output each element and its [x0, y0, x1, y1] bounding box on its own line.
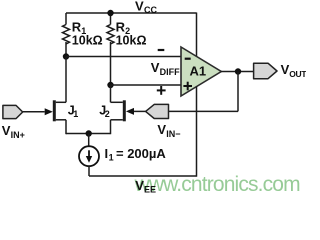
svg-text:IN−: IN−: [166, 129, 180, 139]
svg-text:IN+: IN+: [11, 130, 25, 140]
value label R1 10kΩ: [72, 20, 103, 48]
svg-text:10kΩ: 10kΩ: [116, 33, 147, 47]
svg-text:CC: CC: [144, 5, 157, 15]
svg-text:V: V: [151, 60, 160, 75]
junction output node: [235, 68, 241, 74]
op-amp A1: [181, 47, 221, 96]
svg-text:V: V: [157, 122, 166, 137]
wire VIN- terminal to J2 gate with arrow: [126, 108, 146, 115]
svg-text:1: 1: [109, 153, 114, 163]
terminal VOUT: [254, 62, 308, 79]
svg-text:V: V: [135, 178, 144, 193]
junction R2 top on VCC rail: [107, 10, 113, 16]
junction node R2 bottom: [107, 82, 113, 88]
svg-text:DIFF: DIFF: [160, 67, 180, 77]
wire op-amp VEE pin: [196, 87, 198, 177]
svg-text:A1: A1: [190, 64, 207, 79]
node VEE label: [135, 178, 156, 195]
value label R2 10kΩ: [116, 20, 147, 48]
svg-text:V: V: [135, 0, 144, 14]
svg-text:V: V: [2, 123, 11, 138]
transistor J2: [111, 85, 126, 134]
resistor R2: [107, 13, 114, 85]
terminal VIN-: [146, 104, 181, 139]
wire VEE bottom rail: [89, 175, 197, 177]
transistor J1: [53, 57, 66, 135]
label plus below non-inverting input wire: [157, 86, 166, 95]
node VDIFF label: [151, 60, 180, 77]
junction node R1 bottom: [63, 53, 69, 59]
svg-text:2: 2: [105, 109, 110, 119]
wire op-amp output: [221, 71, 254, 73]
current source I1: [79, 134, 99, 177]
svg-text:R: R: [116, 20, 126, 35]
label J1: [68, 103, 79, 119]
resistor R1: [63, 13, 70, 57]
svg-text:EE: EE: [144, 185, 156, 195]
junction common source node: [86, 130, 92, 136]
node VCC label: [135, 0, 157, 15]
svg-text:R: R: [72, 20, 82, 35]
svg-text:10kΩ: 10kΩ: [72, 33, 103, 47]
wire feedback horizontal to VIN- terminal: [169, 110, 239, 112]
wire R2 bottom to op-amp non-inverting input: [111, 84, 182, 86]
svg-text:OUT: OUT: [289, 69, 306, 79]
wire common source rail: [66, 133, 111, 135]
svg-text:= 200µA: = 200µA: [116, 146, 166, 161]
label J2: [99, 103, 110, 119]
value label I1 = 200µA: [105, 146, 167, 163]
terminal VIN+: [2, 105, 25, 139]
wire VCC top rail: [66, 12, 197, 14]
wire VIN+ terminal to J1 gate with arrow: [23, 108, 53, 115]
svg-text:I: I: [105, 146, 109, 161]
label minus above inverting input wire: [158, 49, 165, 51]
wire feedback from output node down: [237, 72, 239, 112]
wire op-amp VCC pin: [196, 13, 198, 58]
wire R1 bottom to op-amp inverting input: [66, 56, 181, 58]
svg-text:1: 1: [73, 109, 78, 119]
